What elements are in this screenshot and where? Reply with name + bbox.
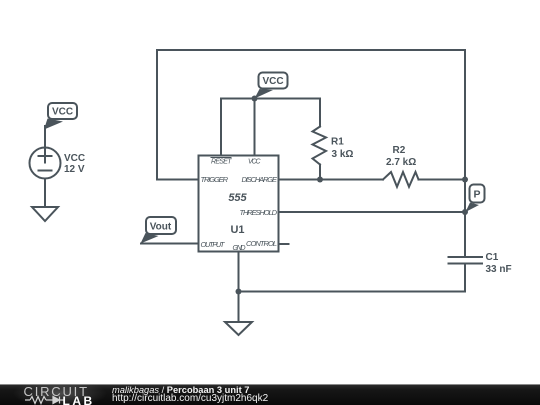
wire discharge pin to R2	[279, 179, 384, 181]
junction node dots	[236, 96, 469, 295]
wire vcc bus above IC	[221, 98, 320, 100]
footer credits line 2 url	[112, 393, 268, 404]
svg-text:R2: R2	[393, 145, 406, 156]
flag VCC (left, source)	[44, 103, 77, 130]
resistor R2	[383, 172, 419, 187]
IC U1 pin labels	[201, 158, 278, 253]
footer logo glow	[8, 384, 112, 405]
node gnd junction	[236, 289, 242, 295]
wire capacitor bottom to bottom rail corner	[239, 264, 466, 292]
plus sign	[39, 155, 52, 157]
ground under gnd pin	[225, 322, 252, 335]
svg-text:THRESHOLD: THRESHOLD	[240, 208, 278, 217]
CircuitLab logo wire/diode	[25, 395, 75, 405]
svg-text:U1: U1	[230, 224, 244, 236]
svg-text:CONTROL: CONTROL	[246, 239, 277, 248]
wire threshold pin to rail	[279, 211, 466, 213]
node R1/discharge junction	[317, 177, 323, 183]
svg-text:TRIGGER: TRIGGER	[201, 175, 229, 184]
wire source bottom	[44, 179, 46, 208]
svg-text:12 V: 12 V	[64, 164, 85, 175]
wire gnd pin down	[238, 252, 240, 323]
wire R1 bottom to discharge row	[319, 165, 321, 180]
svg-text:555: 555	[228, 192, 247, 204]
svg-text:VCC: VCC	[248, 159, 261, 166]
svg-text:OUTPUT: OUTPUT	[201, 240, 226, 249]
wire source top	[44, 126, 46, 148]
wire outer loop: trigger to top to right rail	[157, 50, 465, 180]
svg-text:Vout: Vout	[150, 222, 172, 233]
minus sign	[39, 170, 52, 172]
label R1 value	[331, 137, 353, 161]
capacitor C1	[449, 256, 483, 258]
wire R1 top	[319, 99, 321, 127]
wire right rail down to threshold node	[464, 180, 466, 213]
node vcc flag junction	[252, 96, 258, 102]
wire reset pin stub	[220, 99, 222, 156]
svg-text:GND: GND	[233, 245, 246, 252]
footer credits line 1	[112, 385, 249, 395]
svg-text:C1: C1	[486, 252, 499, 263]
label V1 value	[64, 153, 85, 175]
svg-text:P: P	[473, 189, 480, 201]
svg-text:VCC: VCC	[52, 107, 73, 118]
flag VCC (above IC)	[255, 73, 288, 99]
svg-text:DISCHARGE: DISCHARGE	[242, 175, 278, 184]
node R2/rail junction	[462, 177, 468, 183]
wire right rail threshold node to capacitor top	[464, 212, 466, 257]
svg-text:3 kΩ: 3 kΩ	[332, 149, 354, 160]
wire vcc pin stub	[254, 99, 256, 156]
CircuitLab logo LAB	[63, 394, 95, 405]
svg-text:VCC: VCC	[262, 76, 283, 87]
flag P (threshold node)	[466, 185, 485, 213]
flag Vout (output)	[141, 217, 177, 244]
CircuitLab logo CIRCUIT	[24, 384, 89, 399]
wire control pin stub	[279, 243, 289, 245]
node P threshold junction	[462, 209, 468, 215]
ground under source	[32, 207, 58, 221]
wire R2 right to rail	[419, 179, 466, 181]
wire output pin to Vout	[141, 243, 199, 245]
svg-text:RESET: RESET	[211, 159, 232, 166]
voltage source V1 circle	[30, 148, 61, 179]
svg-text:33 nF: 33 nF	[486, 264, 512, 275]
svg-text:2.7 kΩ: 2.7 kΩ	[386, 157, 416, 168]
footer bar	[0, 384, 540, 405]
svg-text:R1: R1	[331, 137, 344, 148]
svg-text:VCC: VCC	[64, 153, 85, 164]
resistor R1 (3 k)	[313, 127, 327, 165]
label C1 value	[486, 252, 512, 275]
IC U1 555 timer body	[199, 156, 279, 252]
label R2 value	[386, 145, 416, 168]
